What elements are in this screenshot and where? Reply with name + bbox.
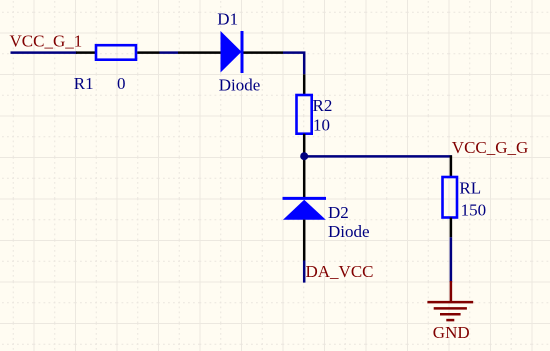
resistor R2 (297, 95, 312, 134)
svg-text:0: 0 (117, 74, 126, 93)
svg-text:R2: R2 (313, 96, 333, 115)
wire RL pin 1 (black) (450, 155, 453, 177)
wire (blue horizontal to RL branch) (306, 155, 452, 158)
svg-text:D2: D2 (328, 203, 349, 222)
wire R2 pin 1 (black) (303, 74, 306, 95)
diode D2 (283, 198, 327, 219)
wire (blue corner to R2) (283, 53, 304, 75)
wire D1 anode pin (black) (178, 51, 222, 54)
wire D2 anode pin (black) (303, 220, 306, 261)
diode D1 (221, 31, 243, 73)
ground GND symbol (427, 281, 473, 320)
wire D2 cathode stub (black) (303, 158, 306, 198)
wire (blue segment between R1 and D1) (160, 51, 179, 54)
svg-text:VCC_G_G: VCC_G_G (452, 138, 529, 157)
resistor R1 (96, 45, 136, 60)
wire (blue, net DA_VCC) (303, 261, 306, 283)
svg-text:Diode: Diode (219, 76, 261, 95)
svg-text:D1: D1 (217, 10, 238, 29)
svg-text:10: 10 (313, 116, 330, 135)
svg-text:Diode: Diode (328, 222, 370, 241)
wire D1 cathode pin (black) (244, 51, 284, 54)
resistor RL (443, 177, 458, 218)
wire R2 pin 2 (black) (303, 134, 306, 156)
svg-text:R1: R1 (74, 74, 94, 93)
svg-text:DA_VCC: DA_VCC (306, 262, 374, 281)
wire (net VCC_G_1, blue segment) (11, 51, 78, 54)
svg-text:RL: RL (459, 179, 481, 198)
svg-text:150: 150 (461, 201, 487, 220)
svg-text:GND: GND (433, 323, 470, 342)
wire R1 pin 2 (black) (137, 51, 159, 54)
wire (blue to GND) (450, 237, 453, 282)
wire R1 pin 1 (black) (76, 51, 96, 54)
wire RL pin 2 (black) (450, 218, 453, 238)
junction node (300, 152, 308, 160)
svg-text:VCC_G_1: VCC_G_1 (10, 32, 83, 51)
